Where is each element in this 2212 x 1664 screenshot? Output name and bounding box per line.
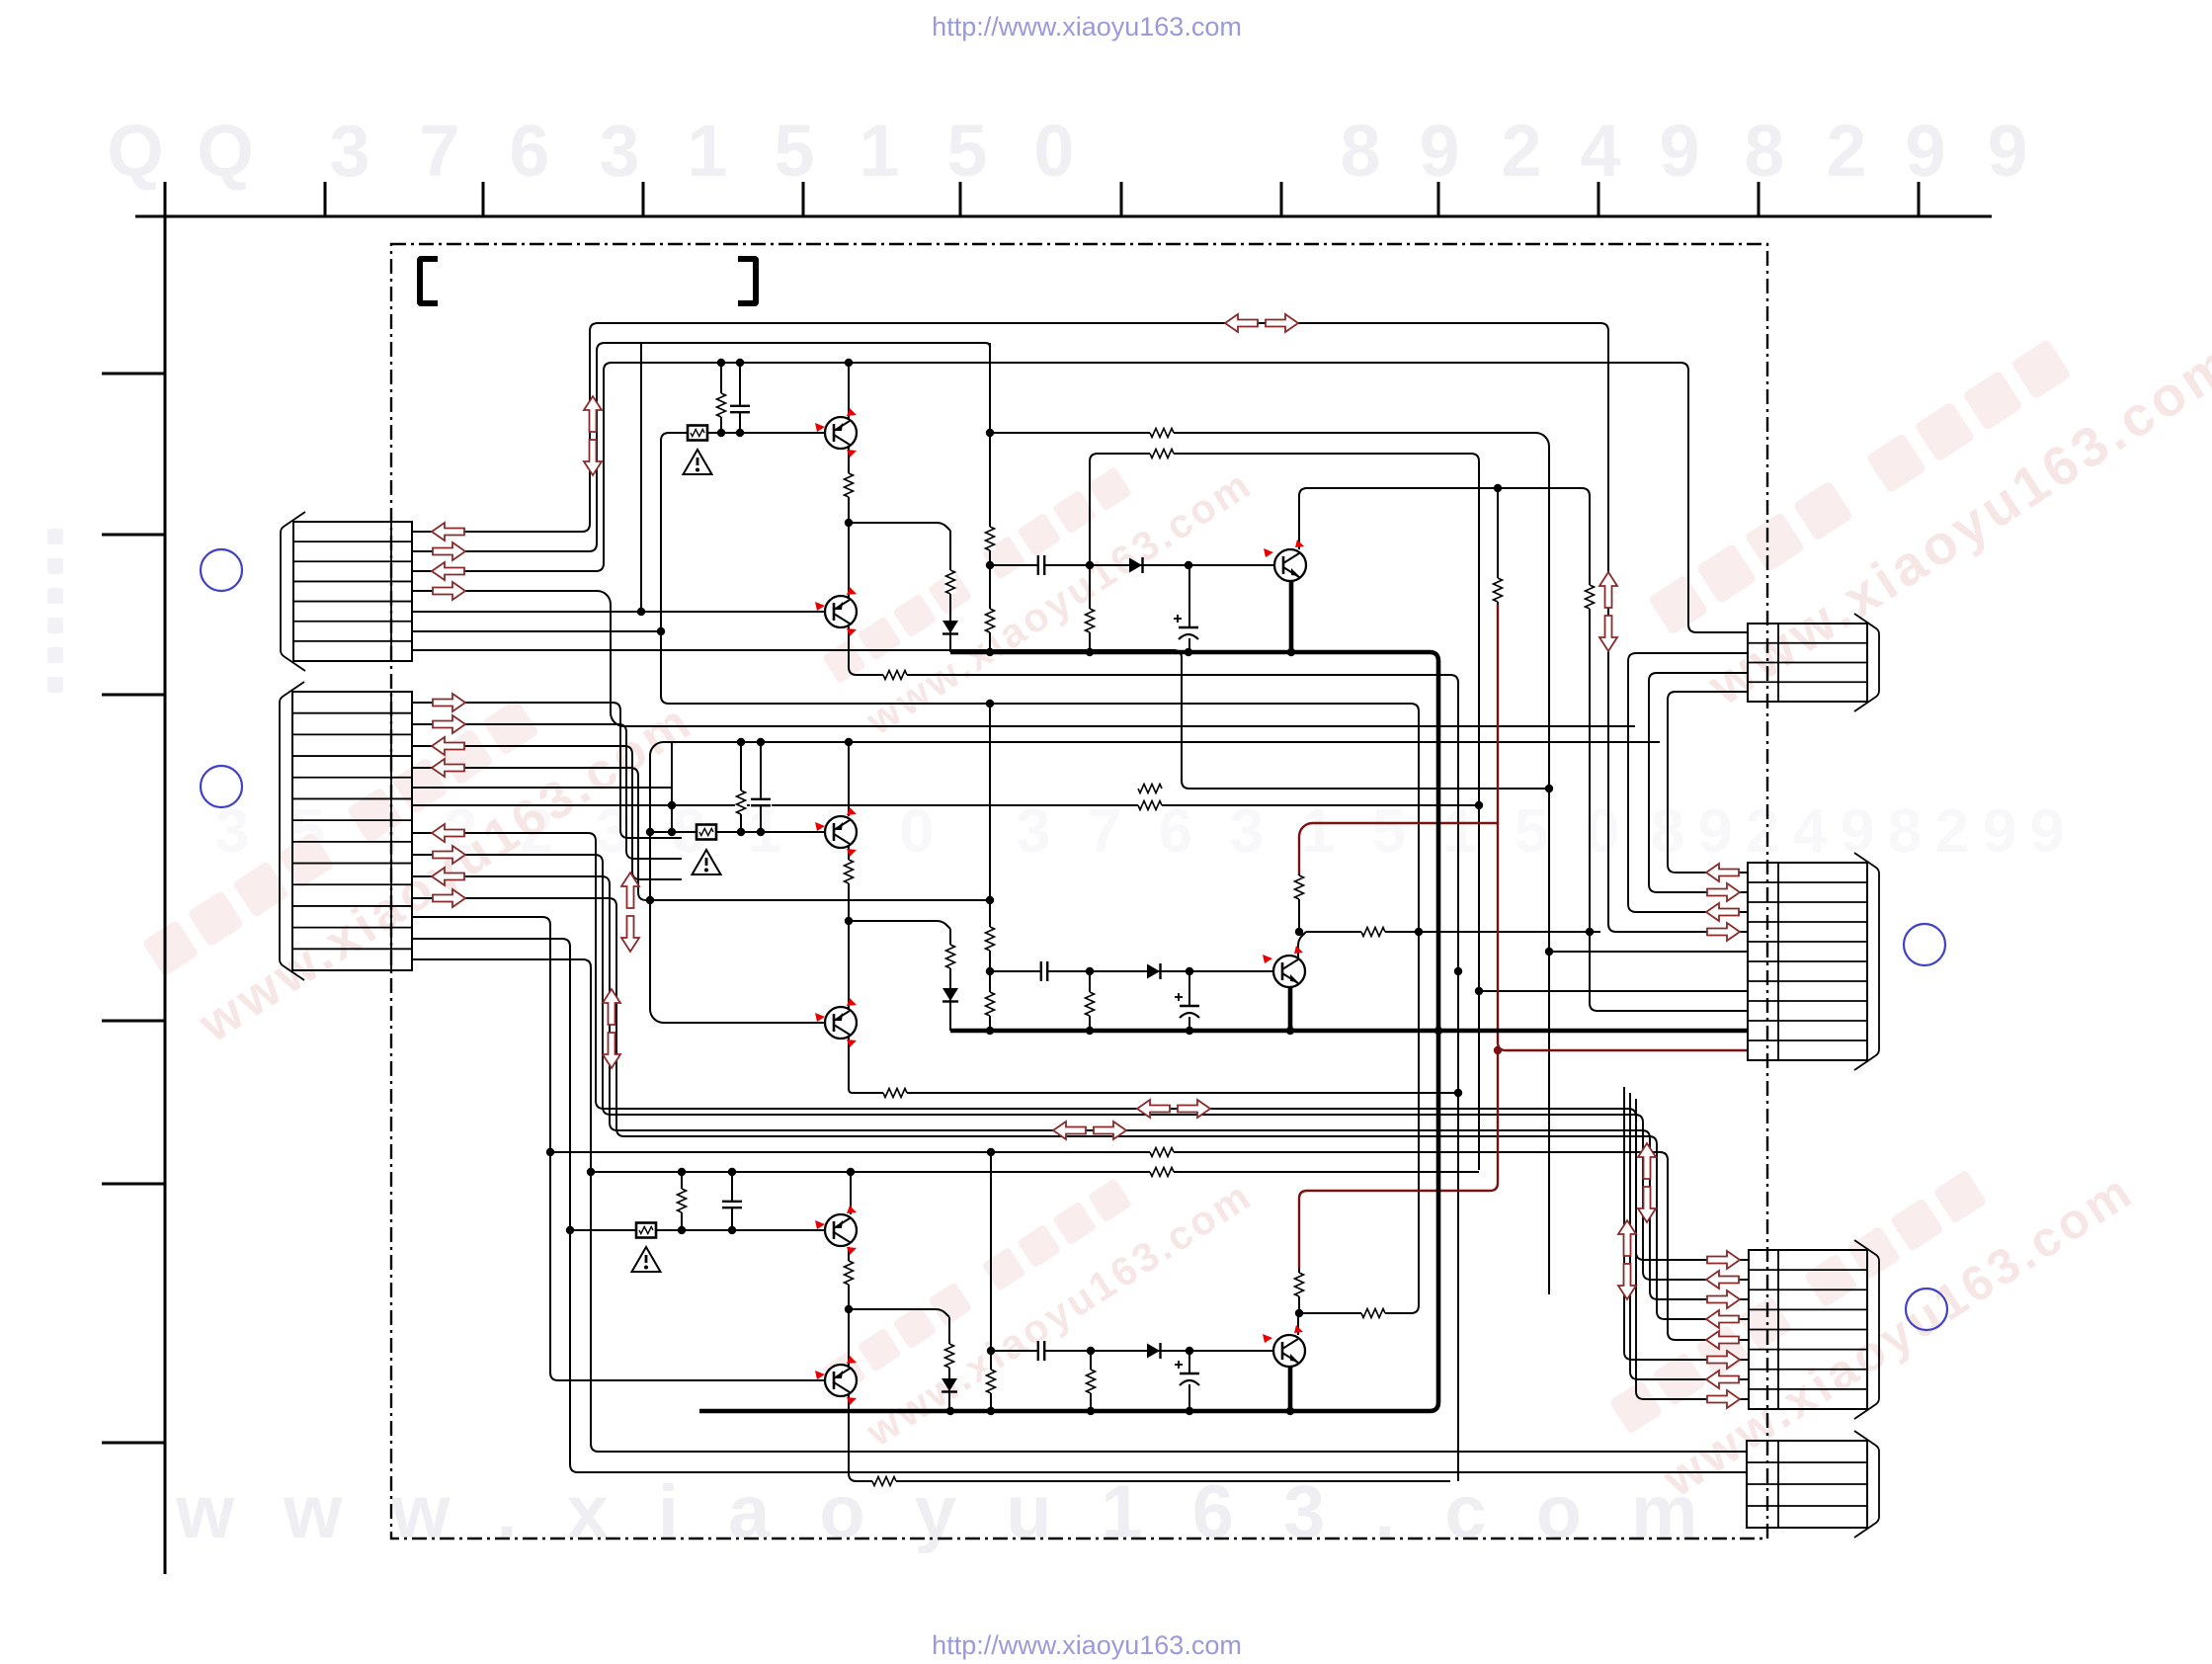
svg-text:2: 2 [1826,110,1866,192]
svg-text:5: 5 [1372,797,1406,866]
svg-text:8: 8 [1744,110,1784,192]
svg-text:9: 9 [1983,797,2016,866]
svg-text:4: 4 [1580,110,1620,192]
svg-text:http://www.xiaoyu163.com: http://www.xiaoyu163.com [932,12,1242,42]
svg-text:Q: Q [197,110,254,192]
svg-text:5: 5 [946,110,987,192]
svg-text:2: 2 [1935,797,1969,866]
svg-text:3: 3 [1017,797,1050,866]
svg-text:www.xiaoyu163.com: www.xiaoyu163.com [175,1470,1748,1554]
svg-text:0: 0 [900,797,934,866]
svg-text:3: 3 [599,110,639,192]
svg-text:8: 8 [1340,110,1380,192]
svg-text:1: 1 [859,110,899,192]
svg-text:6: 6 [509,110,549,192]
svg-text:9: 9 [1987,110,2027,192]
svg-text:7: 7 [1088,797,1121,866]
svg-text:2: 2 [1746,797,1779,866]
svg-text:3: 3 [329,110,369,192]
svg-text:7: 7 [419,110,459,192]
svg-text:2: 2 [1501,110,1541,192]
svg-text:9: 9 [2030,797,2064,866]
svg-text:1: 1 [1443,797,1477,866]
svg-text:0: 0 [1033,110,1074,192]
svg-text:1: 1 [687,110,727,192]
svg-text:9: 9 [1659,110,1699,192]
svg-text:8: 8 [1888,797,1922,866]
svg-text:4: 4 [1793,797,1828,866]
svg-text:5: 5 [774,110,814,192]
svg-text:9: 9 [1419,110,1459,192]
svg-text:http://www.xiaoyu163.com: http://www.xiaoyu163.com [932,1630,1242,1660]
svg-text:9: 9 [1905,110,1945,192]
svg-text:6: 6 [1159,797,1192,866]
svg-text:9: 9 [1698,797,1732,866]
svg-text:Q: Q [107,110,164,192]
svg-text:3: 3 [1230,797,1264,866]
svg-text:1: 1 [1301,797,1335,866]
svg-text:5: 5 [1515,797,1548,866]
